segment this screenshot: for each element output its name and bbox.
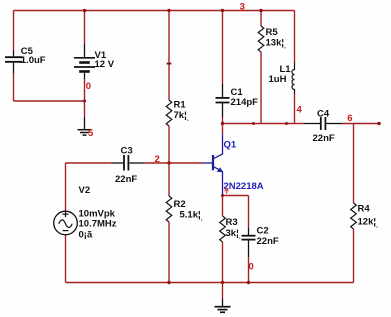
- wire L1 bottom: [294, 94, 296, 124]
- svg-text:C3: C3: [121, 146, 133, 157]
- svg-text:7k¦¸: 7k¦¸: [174, 110, 189, 122]
- wire C3 to base: [144, 162, 204, 164]
- label R5 value: [266, 27, 287, 49]
- svg-text:0¡ã: 0¡ã: [79, 230, 93, 241]
- svg-text:1.0uF: 1.0uF: [21, 55, 46, 66]
- node 6: [347, 113, 352, 124]
- wire bottom of left loop: [14, 100, 85, 102]
- source V2: [54, 211, 78, 235]
- svg-text:0: 0: [86, 81, 91, 92]
- wire L1 branch top: [294, 11, 296, 63]
- junction dot node 2: [167, 161, 170, 164]
- svg-text:12 V: 12 V: [95, 59, 115, 70]
- wire R3 bottom: [222, 242, 224, 283]
- wire R3 top: [222, 196, 224, 217]
- capacitor C5: [5, 50, 23, 73]
- wire R2 top: [168, 163, 170, 196]
- wire R2 bottom: [168, 222, 170, 283]
- svg-text:0: 0: [249, 262, 254, 273]
- label C2 value: [257, 226, 279, 247]
- junction dot V1 bottom: [83, 100, 86, 103]
- resistor R5: [258, 26, 264, 52]
- label V1 value: [95, 50, 115, 70]
- node 0 label near V1: [86, 81, 91, 92]
- node 0 label near C2: [249, 262, 254, 273]
- junction dot ground mid: [221, 281, 224, 284]
- label 2N2218A: [224, 181, 264, 192]
- capacitor C2: [242, 228, 256, 257]
- resistor R4: [351, 203, 357, 229]
- transistor Q1: [204, 135, 223, 195]
- wire top rail node 3: [14, 10, 295, 12]
- junction dot R2 bottom: [167, 281, 170, 284]
- label C1 value: [231, 87, 259, 108]
- junction dot C1 top: [221, 9, 224, 12]
- label C4 value: [313, 109, 335, 144]
- battery V1: [74, 44, 95, 79]
- wire emitter node horizontal: [223, 195, 249, 197]
- wire V1 branch vertical: [84, 11, 86, 102]
- svg-text:Q1: Q1: [224, 140, 237, 151]
- label R4 value: [358, 204, 379, 228]
- ground bottom middle: [215, 299, 231, 312]
- svg-text:R4: R4: [358, 204, 371, 215]
- wire R5 bottom: [260, 52, 262, 124]
- svg-text:22nF: 22nF: [257, 236, 279, 247]
- label C3 value: [115, 146, 137, 186]
- svg-text:C4: C4: [317, 109, 330, 120]
- svg-text:1uH: 1uH: [269, 74, 287, 85]
- junction dot wire seam 2: [285, 122, 288, 125]
- junction dot emitter: [221, 194, 224, 197]
- label V2: [79, 185, 91, 196]
- label Q1: [224, 140, 237, 151]
- junction dot collector node: [221, 122, 224, 125]
- node 4: [297, 105, 303, 116]
- node 2: [155, 154, 160, 165]
- node 3: [240, 2, 245, 13]
- ground under V1: [78, 117, 92, 135]
- capacitor C3: [111, 155, 144, 171]
- svg-text:10.7MHz: 10.7MHz: [79, 219, 117, 230]
- junction dot wire seam 1: [252, 122, 255, 125]
- resistor R2: [166, 196, 172, 222]
- svg-text:13k¦¸: 13k¦¸: [266, 38, 287, 50]
- wire R4 bottom: [353, 229, 355, 283]
- junction dot R1 top: [167, 9, 170, 12]
- label C5 value: [21, 46, 46, 66]
- svg-text:22nF: 22nF: [313, 133, 335, 144]
- wire R5 branch top: [260, 11, 262, 27]
- svg-text:214pF: 214pF: [231, 97, 259, 108]
- svg-text:2N2218A: 2N2218A: [224, 181, 264, 192]
- wire to bottom ground: [222, 283, 224, 300]
- svg-text:22nF: 22nF: [115, 174, 137, 185]
- svg-text:6: 6: [347, 113, 352, 124]
- svg-text:R3: R3: [226, 217, 238, 228]
- label L1 value: [269, 64, 292, 85]
- svg-text:5: 5: [88, 128, 94, 139]
- wire node4 to C4: [295, 123, 304, 125]
- label V2 values: [79, 209, 117, 241]
- wire V2 bottom: [65, 235, 67, 283]
- wire bottom rail: [66, 282, 354, 284]
- wire V2 top to C3: [66, 162, 112, 164]
- svg-text:V2: V2: [79, 185, 91, 196]
- wire C1 bottom: [222, 117, 224, 124]
- node 5 label: [88, 128, 94, 139]
- capacitor C1: [216, 84, 230, 117]
- wire C5 branch vertical: [13, 11, 15, 102]
- svg-text:R2: R2: [174, 199, 186, 210]
- label R3 value: [226, 217, 241, 239]
- svg-text:3k¦¸: 3k¦¸: [226, 228, 241, 240]
- label R1 value: [174, 99, 189, 121]
- capacitor C4: [304, 117, 343, 130]
- wire C2 bottom: [248, 257, 250, 283]
- label R2 value: [174, 199, 203, 221]
- wire C2 top: [248, 196, 250, 229]
- resistor R3: [220, 216, 226, 242]
- output end dot: [377, 122, 381, 126]
- wire C1 branch top: [222, 11, 224, 85]
- red probe arrow: [224, 187, 229, 194]
- wire R1 branch upper: [168, 11, 170, 101]
- wire V2 branch top: [65, 163, 67, 211]
- svg-text:R1: R1: [174, 99, 187, 110]
- wire V1 to ground: [84, 101, 86, 117]
- svg-text:12k¦¸: 12k¦¸: [358, 216, 379, 228]
- resistor R1: [166, 100, 172, 126]
- wire C4 to output: [342, 123, 379, 125]
- junction dot R5 top: [259, 9, 262, 12]
- svg-text:R5: R5: [266, 27, 279, 38]
- svg-text:3: 3: [240, 2, 245, 13]
- wire segment tick: [167, 63, 172, 65]
- wire R1 to node 2: [168, 126, 170, 163]
- svg-text:4: 4: [297, 105, 303, 116]
- junction dot V1 top: [83, 9, 86, 12]
- wire collector: [222, 124, 224, 135]
- transistor Q1 emitter arrowhead: [217, 167, 223, 172]
- junction dot C2 bottom: [247, 281, 250, 284]
- wire middle horizontal to L1: [223, 123, 295, 125]
- svg-text:5.1k¦¸: 5.1k¦¸: [180, 210, 203, 222]
- inductor L1: [292, 62, 295, 94]
- wire R4 branch top: [353, 124, 355, 204]
